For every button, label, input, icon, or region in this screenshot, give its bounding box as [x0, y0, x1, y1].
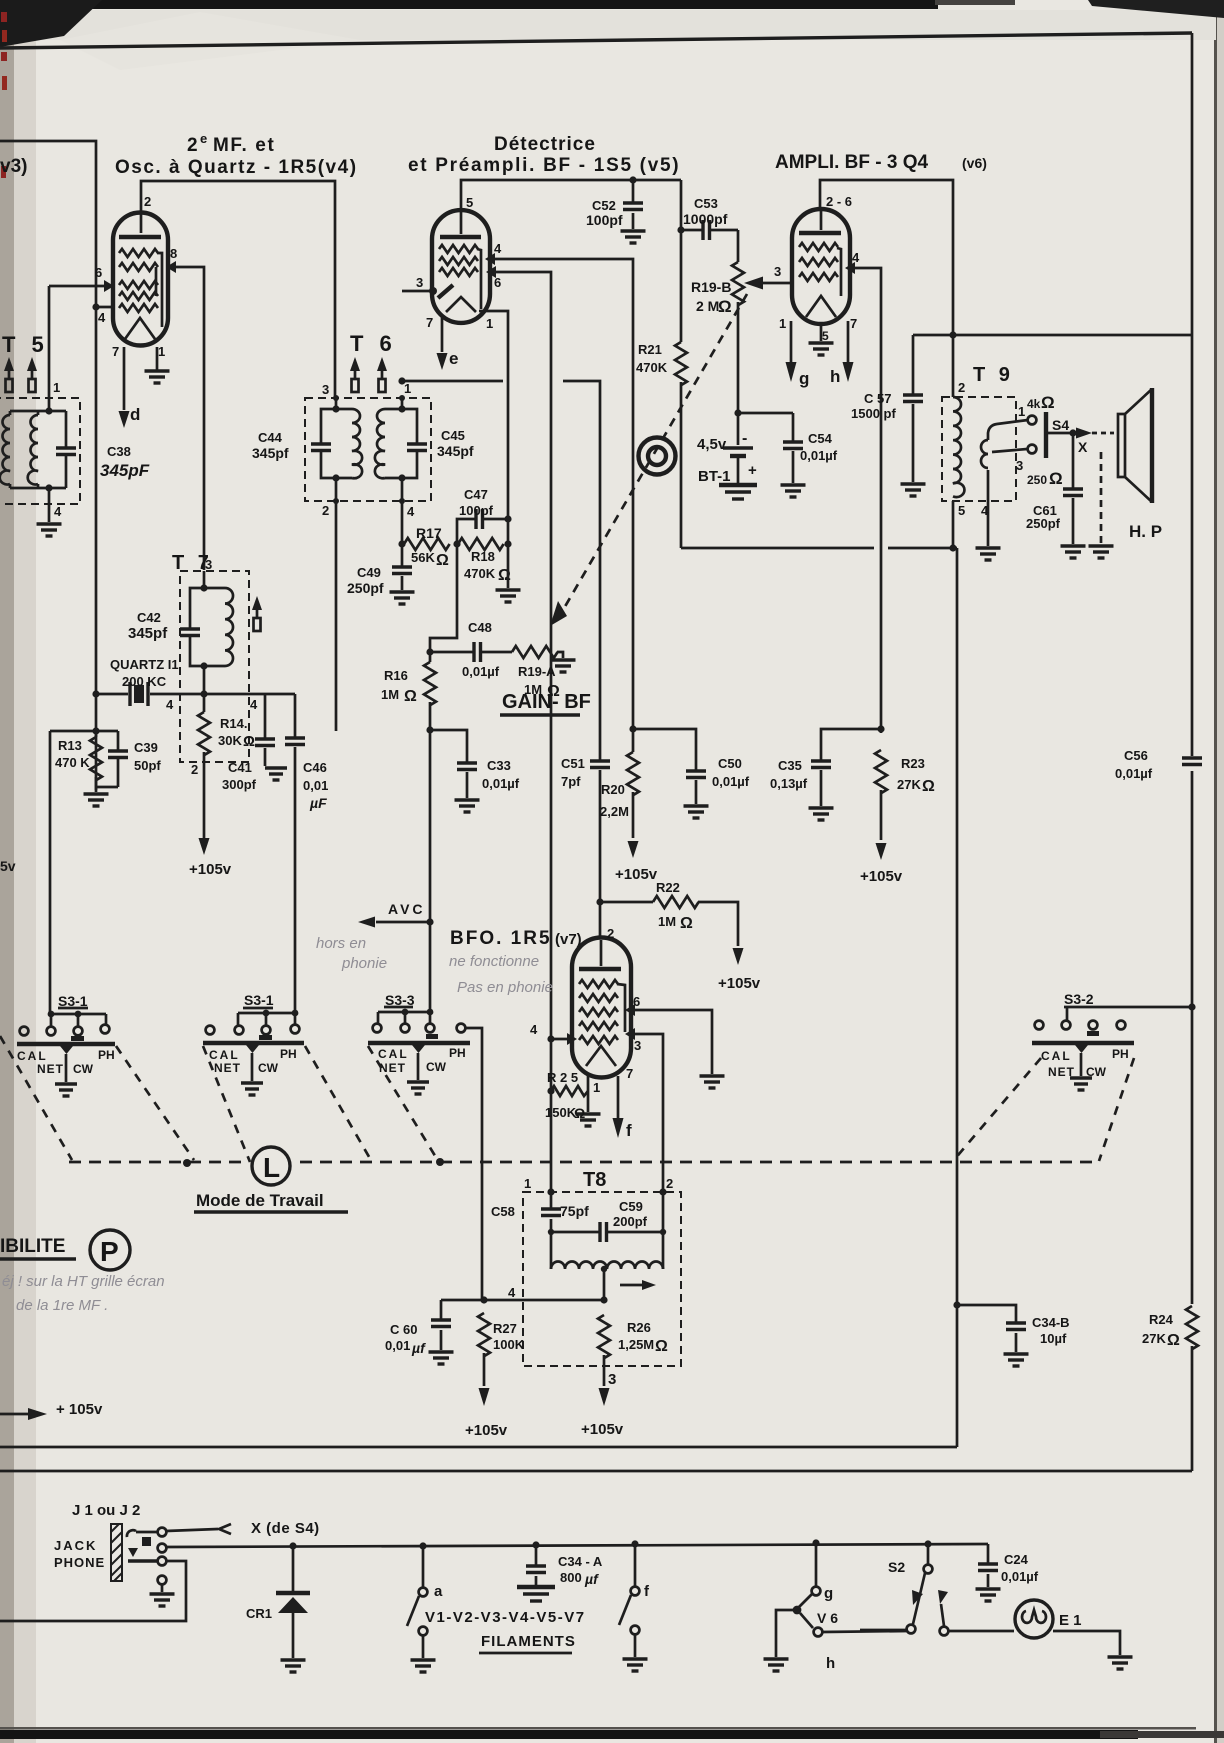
svg-text:150K: 150K: [545, 1105, 577, 1120]
svg-text:R16: R16: [384, 668, 408, 683]
svg-text:S2: S2: [888, 1559, 905, 1575]
svg-text:-: -: [742, 430, 747, 447]
svg-text:470K: 470K: [464, 566, 496, 581]
svg-text:µF: µF: [309, 795, 327, 811]
svg-text:R23: R23: [901, 756, 925, 771]
svg-text:3: 3: [774, 264, 781, 279]
svg-text:C59: C59: [619, 1199, 643, 1214]
resistor R25: [545, 1070, 601, 1126]
svg-text:CW: CW: [73, 1062, 94, 1076]
T8 core arrow: [620, 1280, 656, 1290]
T6 pin2 wire down: [322, 478, 339, 731]
diode CR1: [246, 1542, 310, 1672]
svg-text:100pf: 100pf: [459, 503, 494, 518]
pin 3 wire to T8: [625, 1028, 663, 1192]
svg-text:+ 105v: + 105v: [56, 1401, 103, 1418]
volume knob symbol: [639, 438, 676, 475]
svg-text:5: 5: [958, 503, 965, 518]
svg-text:56K: 56K: [411, 550, 435, 565]
svg-text:2: 2: [607, 926, 614, 941]
svg-text:+105v: +105v: [465, 1422, 508, 1439]
svg-text:R19-B: R19-B: [691, 279, 731, 295]
svg-text:C56: C56: [1124, 748, 1148, 763]
circled P: [90, 1230, 130, 1270]
C42 labels: [128, 610, 168, 642]
svg-text:ne fonctionne: ne fonctionne: [449, 953, 539, 970]
divider line 2: [0, 1470, 1192, 1473]
capacitor C53: [677, 196, 738, 240]
transformer T6 box: [305, 398, 431, 501]
svg-text:NET: NET: [214, 1061, 241, 1075]
svg-text:h: h: [830, 367, 840, 386]
svg-text:PH: PH: [98, 1048, 115, 1062]
svg-text:C35: C35: [778, 758, 802, 773]
V5 top wire: [461, 180, 681, 208]
capacitor C33: [426, 726, 519, 812]
svg-text:5: 5: [822, 329, 829, 343]
S3-2 dashed linkage: [953, 1058, 1134, 1161]
svg-text:800: 800: [560, 1570, 582, 1585]
pin 1 ground: [145, 344, 170, 383]
filament switch a: [407, 1542, 443, 1672]
capacitor C57: [851, 335, 926, 496]
svg-text:NET: NET: [1048, 1065, 1075, 1079]
handwritten note hors en phonie: [316, 935, 387, 972]
svg-text:T 5: T 5: [2, 332, 49, 357]
link dot 1: [183, 1159, 191, 1167]
circled L: [252, 1147, 290, 1185]
svg-text:1,25M: 1,25M: [618, 1337, 654, 1352]
svg-text:C39: C39: [134, 740, 158, 755]
pin 7 arrow h: [830, 316, 857, 386]
svg-text:C53: C53: [694, 196, 718, 211]
svg-text:BFO. 1R5: BFO. 1R5: [450, 928, 552, 949]
pin 4 wire down to R23: [845, 250, 881, 733]
resistor R16: [381, 648, 436, 1012]
capacitor C59: [548, 1188, 667, 1242]
capacitor C51: [561, 756, 610, 939]
T8 coil: [551, 1232, 663, 1300]
svg-text:2: 2: [144, 194, 151, 209]
svg-text:3: 3: [634, 1038, 641, 1053]
svg-text:Ω: Ω: [243, 733, 255, 750]
svg-text:R 2 5: R 2 5: [547, 1070, 578, 1085]
svg-text:1: 1: [158, 344, 165, 359]
svg-text:2: 2: [187, 135, 198, 156]
wire V4 plate to T6 pin3: [141, 181, 335, 398]
svg-text:et Préampli. BF - 1S5 (v5): et Préampli. BF - 1S5 (v5): [408, 155, 680, 176]
svg-text:C58: C58: [491, 1204, 515, 1219]
svg-text:5: 5: [466, 195, 473, 210]
svg-text:CW: CW: [1086, 1065, 1107, 1079]
tube V7: [572, 937, 631, 1077]
link dot 2: [436, 1158, 444, 1166]
jack contact 4 ground: [150, 1576, 175, 1606]
svg-text:+105v: +105v: [718, 975, 761, 992]
svg-text:1: 1: [1018, 404, 1025, 419]
svg-text:C54: C54: [808, 431, 833, 446]
capacitor C60: [385, 1300, 454, 1364]
wire pin6 down to T5 pin1: [48, 286, 51, 412]
svg-text:0,01µf: 0,01µf: [800, 448, 838, 463]
svg-text:C38: C38: [107, 444, 131, 459]
svg-text:R13: R13: [58, 738, 82, 753]
svg-text:GAIN- BF: GAIN- BF: [502, 691, 591, 713]
V5 pin1 wire / ground: [479, 311, 521, 602]
T6 primary coil with C44: [311, 382, 362, 482]
svg-text:345pf: 345pf: [128, 625, 168, 642]
T8 pin4 wire: [441, 1285, 608, 1304]
svg-text:+105v: +105v: [860, 868, 903, 885]
resistor R14: [191, 694, 255, 839]
svg-text:6: 6: [494, 275, 501, 290]
svg-text:H. P: H. P: [1129, 522, 1162, 541]
T5 pin 4 ground: [37, 488, 63, 536]
svg-text:6: 6: [633, 994, 640, 1009]
jack tip contact to X: [127, 1520, 320, 1537]
jack contact 3 loop wire: [0, 1557, 186, 1621]
svg-text:+: +: [748, 462, 757, 479]
svg-text:3: 3: [608, 1371, 616, 1388]
svg-text:10µf: 10µf: [1040, 1331, 1067, 1346]
switch S2: [860, 1540, 1014, 1635]
svg-text:0,01µf: 0,01µf: [712, 774, 750, 789]
svg-text:+105v: +105v: [615, 866, 658, 883]
svg-text:3: 3: [1016, 458, 1023, 473]
svg-text:C52: C52: [592, 198, 616, 213]
svg-text:345pf: 345pf: [437, 443, 474, 459]
svg-text:T 9: T 9: [973, 364, 1014, 386]
svg-text:R27: R27: [493, 1321, 517, 1336]
divider line 1: [0, 1446, 957, 1449]
pin 5 ground: [809, 325, 834, 355]
long dash-dot line: [69, 1161, 1100, 1164]
transformer T9: [942, 380, 1036, 560]
svg-text:Mode de Travail: Mode de Travail: [196, 1191, 324, 1210]
svg-text:0,01µf: 0,01µf: [1115, 766, 1153, 781]
svg-text:7pf: 7pf: [561, 774, 581, 789]
capacitor C34-A: [517, 1541, 603, 1601]
svg-text:3: 3: [205, 557, 212, 572]
svg-text:1: 1: [404, 381, 411, 396]
svg-text:BT-1: BT-1: [698, 468, 731, 485]
JACK PHONE label: [54, 1538, 105, 1570]
svg-text:d: d: [130, 405, 140, 424]
svg-text:50pf: 50pf: [134, 758, 161, 773]
svg-text:e: e: [449, 349, 458, 368]
pin 8 wire to T7: [166, 246, 204, 570]
svg-text:300pf: 300pf: [222, 777, 257, 792]
svg-text:R20: R20: [601, 782, 625, 797]
svg-text:Ω: Ω: [1041, 393, 1055, 412]
svg-text:X (de S4): X (de S4): [251, 1520, 320, 1537]
svg-text:CAL: CAL: [209, 1048, 240, 1062]
svg-text:AVC: AVC: [388, 901, 426, 917]
svg-text:MF. et: MF. et: [213, 135, 275, 156]
svg-text:V1-V2-V3-V4-V5-V7: V1-V2-V3-V4-V5-V7: [425, 1609, 586, 1626]
svg-text:0,01: 0,01: [385, 1338, 410, 1353]
svg-text:Ω: Ω: [718, 297, 732, 316]
svg-text:T 6: T 6: [350, 331, 397, 356]
svg-text:PH: PH: [449, 1046, 466, 1060]
transformer T7: [180, 571, 249, 762]
svg-text:1: 1: [593, 1080, 600, 1095]
svg-text:C51: C51: [561, 756, 585, 771]
svg-text:C44: C44: [258, 430, 283, 445]
svg-text:2 - 6: 2 - 6: [826, 194, 852, 209]
svg-text:CAL: CAL: [378, 1047, 409, 1061]
svg-text:v3): v3): [0, 156, 27, 177]
svg-text:S3-1: S3-1: [58, 993, 88, 1009]
svg-text:Ω: Ω: [655, 1338, 668, 1355]
svg-text:PHONE: PHONE: [54, 1555, 105, 1570]
Mode de Travail label: [194, 1191, 348, 1212]
svg-text:QUARTZ I1: QUARTZ I1: [110, 657, 179, 672]
svg-text:éj ! sur la HT grille écran: éj ! sur la HT grille écran: [2, 1273, 165, 1290]
svg-text:2: 2: [958, 380, 965, 395]
transformer T5: [0, 380, 80, 504]
svg-text:Ω: Ω: [404, 688, 417, 705]
capacitor C49: [347, 540, 415, 604]
svg-text:CW: CW: [426, 1060, 447, 1074]
S3-3 dashed linkage: [368, 1046, 437, 1159]
capacitor C41: [222, 694, 287, 792]
svg-text:C48: C48: [468, 620, 492, 635]
svg-text:100K: 100K: [493, 1337, 525, 1352]
schematic border right line / right bus: [1191, 33, 1194, 1471]
tube V4: [113, 210, 168, 346]
pin 6 wire to ground: [625, 994, 725, 1088]
svg-text:2 M: 2 M: [696, 298, 719, 314]
filament switch V6 g h: [764, 1539, 909, 1672]
svg-text:R19-A: R19-A: [518, 664, 556, 679]
svg-text:Ω: Ω: [680, 915, 693, 932]
T6 secondary coil with C45: [375, 381, 427, 482]
svg-text:345pF: 345pF: [100, 461, 150, 480]
switch S4: [1046, 412, 1114, 458]
vertical bus T9 to divider: [953, 548, 960, 1447]
svg-text:R14.: R14.: [220, 716, 247, 731]
svg-text:JACK: JACK: [54, 1538, 97, 1553]
svg-text:L: L: [263, 1152, 280, 1183]
svg-text:R21: R21: [638, 342, 662, 357]
svg-text:0,01µf: 0,01µf: [1001, 1569, 1039, 1584]
svg-text:phonie: phonie: [341, 955, 387, 972]
capacitor C58: [491, 1188, 589, 1232]
potentiometer R19-A: [512, 646, 576, 700]
battery BT-1: [697, 409, 793, 499]
GAIN-BF label: [500, 691, 591, 715]
handwritten note ne fonctionne pas en phonie: [449, 953, 553, 996]
wire R13 to S3-1a: [49, 731, 52, 1014]
svg-text:P: P: [100, 1236, 119, 1267]
svg-text:PH: PH: [280, 1047, 297, 1061]
lamp E1 wire to ground: [1053, 1631, 1133, 1669]
svg-text:6: 6: [95, 265, 102, 280]
svg-text:1000pf: 1000pf: [683, 211, 728, 227]
resistor R13 / capacitor C39: [50, 727, 161, 806]
svg-text:C47: C47: [464, 487, 488, 502]
svg-text:AMPLI. BF - 3 Q4: AMPLI. BF - 3 Q4: [775, 152, 929, 173]
jack ring contact to rail: [128, 1537, 166, 1557]
svg-text:2,2M: 2,2M: [600, 804, 629, 819]
svg-text:3: 3: [416, 275, 423, 290]
output box top rail: [913, 331, 1192, 338]
capacitor C46 line to S3-1b: [285, 694, 328, 1026]
svg-text:1: 1: [486, 316, 493, 331]
speaker H.P: [1118, 388, 1162, 541]
svg-text:C 60: C 60: [390, 1322, 417, 1337]
+105v arrow bottom left: [0, 1401, 103, 1420]
wire R18 junction down to R16: [430, 544, 457, 662]
svg-text:3: 3: [322, 382, 329, 397]
svg-text:1: 1: [53, 380, 60, 395]
svg-text:1M: 1M: [381, 687, 399, 702]
svg-text:5v: 5v: [0, 858, 16, 874]
svg-text:NET: NET: [37, 1062, 64, 1076]
C45 labels: [437, 428, 474, 459]
tube V6: [792, 209, 850, 324]
AVC arrow: [358, 901, 434, 928]
battery box wire to rail: [681, 547, 957, 550]
svg-text:4: 4: [98, 310, 106, 325]
svg-text:4: 4: [166, 697, 174, 712]
svg-text:7: 7: [850, 316, 857, 331]
svg-text:2: 2: [322, 503, 329, 518]
potentiometer R19-B: [691, 230, 744, 413]
svg-text:1500 pf: 1500 pf: [851, 406, 896, 421]
pin 6 wire: [49, 265, 114, 292]
capacitor C52: [586, 176, 646, 243]
capacitor C56: [1115, 748, 1202, 781]
S3-1a dashed linkage: [0, 1036, 194, 1160]
capacitor C48: [430, 620, 512, 679]
svg-text:250pf: 250pf: [347, 580, 384, 596]
R19-B wiper arrow from V6 pin3: [744, 277, 793, 290]
svg-text:250pf: 250pf: [1026, 516, 1061, 531]
svg-text:R26: R26: [627, 1320, 651, 1335]
svg-text:e: e: [200, 131, 207, 146]
T6 pin4 wire down: [399, 478, 415, 544]
svg-text:0,01µf: 0,01µf: [482, 776, 520, 791]
svg-text:C45: C45: [441, 428, 465, 443]
svg-text:+105v: +105v: [189, 861, 232, 878]
pin 7 arrow e: [426, 315, 458, 370]
svg-text:T8: T8: [583, 1169, 606, 1191]
PH line from S3-3: [466, 1028, 482, 1300]
svg-text:8: 8: [170, 246, 177, 261]
svg-text:Ω: Ω: [436, 552, 449, 569]
svg-text:C33: C33: [487, 758, 511, 773]
svg-text:R24: R24: [1149, 1312, 1174, 1327]
title Detectrice et Preampli: [408, 134, 680, 176]
svg-text:R18: R18: [471, 549, 495, 564]
+105v arrow R23: [860, 843, 903, 885]
capacitor C61: [1026, 429, 1086, 558]
wire T6 sec to C51 line: [398, 377, 600, 760]
svg-text:C42: C42: [137, 610, 161, 625]
svg-text:C49: C49: [357, 565, 381, 580]
svg-text:4: 4: [508, 1285, 516, 1300]
svg-text:7: 7: [112, 344, 119, 359]
svg-text:4: 4: [250, 697, 258, 712]
svg-text:(v6): (v6): [962, 155, 987, 171]
svg-text:R22: R22: [656, 880, 680, 895]
svg-text:FILAMENTS: FILAMENTS: [481, 1633, 576, 1650]
svg-text:200pf: 200pf: [613, 1214, 648, 1229]
resistor R27: [478, 1313, 525, 1386]
svg-text:NET: NET: [379, 1061, 406, 1075]
svg-text:CAL: CAL: [1041, 1049, 1072, 1063]
resistor R24: [1142, 1306, 1198, 1352]
svg-text:7: 7: [626, 1066, 633, 1081]
svg-text:0,01: 0,01: [303, 778, 328, 793]
svg-text:C41: C41: [228, 760, 252, 775]
jack body hatched: [111, 1524, 122, 1581]
svg-text:1: 1: [524, 1176, 531, 1191]
speaker dashed ground: [1089, 452, 1114, 558]
svg-text:Osc. à Quartz - 1R5(v4): Osc. à Quartz - 1R5(v4): [115, 157, 358, 178]
svg-text:345pf: 345pf: [252, 445, 289, 461]
svg-text:g: g: [824, 1585, 833, 1602]
+105v arrow R27: [465, 1388, 508, 1439]
svg-text:S3-3: S3-3: [385, 992, 415, 1008]
svg-text:CR1: CR1: [246, 1606, 272, 1621]
svg-text:hors en: hors en: [316, 935, 366, 952]
scan bottom black bar: [0, 1727, 1224, 1739]
capacitor C34-B: [957, 1305, 1070, 1366]
scan top black bar: [0, 0, 1224, 47]
svg-text:4: 4: [852, 250, 860, 265]
capacitor C38 label: [100, 444, 150, 480]
svg-text:C46: C46: [303, 760, 327, 775]
svg-text:CAL: CAL: [17, 1049, 48, 1063]
pin 7 arrow f: [613, 1066, 634, 1140]
svg-text:2: 2: [191, 762, 198, 777]
svg-text:h: h: [826, 1655, 835, 1672]
svg-text:1M: 1M: [658, 914, 676, 929]
svg-text:µf: µf: [584, 1571, 599, 1587]
filament rail: [166, 1544, 988, 1547]
capacitor C35: [770, 725, 885, 820]
resistor R23: [875, 750, 935, 840]
svg-text:4: 4: [407, 504, 415, 519]
svg-text:f: f: [626, 1121, 632, 1140]
svg-text:S4: S4: [1052, 417, 1069, 433]
+105v arrow R20: [615, 841, 658, 883]
T5 core adjust arrows: [4, 357, 14, 392]
FILAMENTS label: [479, 1633, 576, 1653]
svg-text:7: 7: [426, 315, 433, 330]
pin 7 arrow d: [112, 344, 140, 428]
svg-text:0,13µf: 0,13µf: [770, 776, 808, 791]
pin 4 wire to R20 line: [485, 241, 633, 752]
svg-text:C34 - A: C34 - A: [558, 1554, 603, 1569]
wire from (v3) stage: [0, 141, 96, 792]
pin 4 wire: [92, 303, 114, 325]
svg-text:PH: PH: [1112, 1047, 1129, 1061]
svg-text:E 1: E 1: [1059, 1612, 1082, 1629]
capacitor C24: [976, 1544, 1039, 1601]
svg-text:470K: 470K: [636, 360, 668, 375]
svg-text:27K: 27K: [1142, 1331, 1166, 1346]
svg-text:C50: C50: [718, 756, 742, 771]
lamp E1: [1015, 1600, 1082, 1638]
svg-text:4: 4: [530, 1022, 538, 1037]
tube V5: [432, 210, 490, 323]
capacitor C50: [633, 729, 750, 818]
schematic border top line: [0, 33, 1192, 48]
